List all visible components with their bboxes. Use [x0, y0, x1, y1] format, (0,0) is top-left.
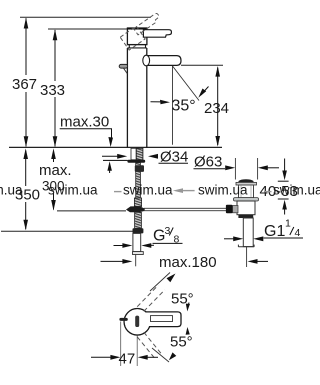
dimension 234 line	[217, 68, 219, 146]
arc arrow onto bar top	[188, 303, 189, 309]
max.30 lower arrow (under countertop)	[107, 161, 112, 171]
arc arrow onto bar bottom	[188, 330, 189, 335]
Ø63 arrows	[225, 165, 235, 170]
dimension max.300 line	[53, 151, 55, 210]
supply hose hatched	[135, 212, 142, 228]
dimension 333 line	[54, 30, 56, 146]
watermark arrow separator	[173, 188, 183, 193]
drain coupling dark band	[238, 215, 253, 218]
svg-text:55°: 55°	[170, 334, 193, 351]
leader arrow right of 35	[201, 87, 208, 95]
svg-text:367: 367	[12, 76, 37, 93]
leader arrow left of 35	[151, 101, 163, 103]
swivel up leader line	[150, 273, 170, 292]
rod sleeve	[134, 198, 141, 207]
node: vertical reference line from spout outlet	[172, 66, 174, 145]
svg-text:max.: max.	[39, 162, 72, 179]
dimension 350 line	[25, 151, 27, 230]
rod junction block	[126, 206, 144, 212]
faucet body column	[127, 48, 146, 148]
wire: spout outlet extension line	[181, 64, 223, 66]
svg-text:234: 234	[204, 100, 229, 117]
drain tailpipe	[243, 218, 253, 247]
circle overlap clean	[125, 309, 150, 334]
dimension 47	[120, 322, 122, 367]
node: extension line top of handle (333 level)	[48, 28, 127, 30]
drain collar locknut	[234, 198, 259, 201]
G3/8 arrows	[114, 245, 126, 247]
threaded rod	[136, 163, 141, 207]
tailpipe end ring	[238, 246, 254, 248]
dimension max.180	[101, 260, 128, 262]
dimension 367 line	[25, 18, 27, 146]
pop-up rod to drain	[144, 208, 226, 210]
swivel up arrowhead	[167, 274, 176, 283]
svg-text:47: 47	[119, 351, 136, 368]
dashed swivel down position	[137, 332, 161, 358]
svg-text:55°: 55°	[171, 291, 194, 308]
svg-text:G1: G1	[264, 223, 285, 240]
drain side port cap	[226, 205, 233, 213]
svg-text:max.30: max.30	[60, 114, 109, 131]
wire: countertop underside segment	[103, 159, 128, 161]
lever handle (closed position)	[143, 30, 171, 38]
wire: max300 level extension line	[57, 210, 126, 212]
tube coupling	[133, 252, 144, 255]
node: extension line top of raised lever (367 level)	[20, 16, 151, 18]
mounting shank through countertop	[131, 148, 136, 160]
wire: supply end level line (350)	[1, 230, 133, 232]
washer under counter	[127, 160, 145, 163]
pop-up rod knob on body	[119, 64, 127, 68]
dimension 40-53	[284, 159, 286, 173]
drain upper body	[239, 185, 254, 198]
G1 1/4 arrows	[224, 238, 236, 240]
spout root bulge	[143, 55, 150, 66]
Ø63 extension lines	[234, 158, 236, 180]
svg-text:1: 1	[285, 218, 291, 230]
top view circle	[124, 309, 150, 335]
dashed raised lever + dome outline	[120, 12, 165, 50]
node: 35 degree slant line	[173, 66, 200, 101]
rod nut	[135, 165, 144, 172]
dashed swivel up position	[137, 285, 165, 311]
drain flange dome	[239, 179, 254, 182]
svg-text:Ø63: Ø63	[194, 154, 222, 171]
svg-text:swim.ua: swim.ua	[273, 183, 320, 198]
watermark band	[0, 183, 320, 198]
wire: countertop surface line	[9, 146, 222, 148]
faucet neck joint	[127, 45, 146, 48]
G3/8 nut	[133, 228, 144, 233]
handle base box U-cartridge	[127, 29, 146, 45]
swivel down arrowhead	[169, 352, 176, 360]
spout bar inner slot	[151, 316, 173, 322]
drain flange ring	[236, 182, 257, 185]
svg-text:swim.ua: swim.ua	[123, 183, 173, 198]
drain side port gray	[233, 206, 239, 213]
lever stub left	[119, 318, 127, 321]
supply tube	[133, 233, 141, 251]
node: drain axis extension line (max180 right)	[246, 247, 248, 267]
node: faucet axis extension line (max180 left)	[135, 255, 137, 267]
svg-text:4: 4	[295, 227, 301, 239]
swivel down leader line	[152, 348, 169, 362]
svg-text:333: 333	[40, 82, 65, 99]
svg-text:swim.ua: swim.ua	[48, 183, 98, 198]
svg-text:max.180: max.180	[159, 254, 217, 271]
lever tick in circle	[135, 316, 139, 327]
svg-text:35°: 35°	[172, 98, 196, 115]
svg-text:swim.ua: swim.ua	[0, 183, 23, 198]
svg-text:swim.ua: swim.ua	[198, 183, 248, 198]
spout	[147, 56, 181, 66]
Ø34 arrows	[102, 155, 120, 157]
drain lower body	[237, 201, 255, 215]
top view spout bar	[145, 312, 181, 327]
